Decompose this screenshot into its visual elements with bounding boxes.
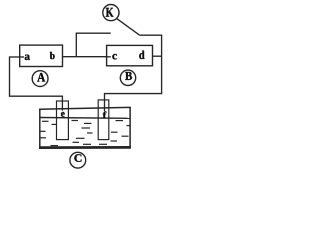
letter f [103,112,107,119]
letter A [37,73,45,82]
tank left wall [39,109,41,149]
tank right wall [129,107,131,149]
letter B [125,72,132,80]
stub into box c [107,56,111,58]
box cd [107,45,153,65]
letter d [139,51,144,59]
wire a to left [10,56,25,58]
electrode e [57,101,69,140]
label circle B [120,70,135,85]
wire d to right [146,55,162,57]
stub into box a [20,56,24,58]
letter K [106,8,114,17]
wire top right down [105,35,162,111]
wire left down and to electrode e [10,56,63,110]
wire branch up [76,33,110,57]
tank rim [39,107,131,109]
letter C [74,154,81,162]
box ab [20,45,63,66]
letter b [50,52,55,59]
liquid level [40,117,129,120]
wire b to c [57,56,111,58]
label circle C [70,152,86,168]
letter e [61,112,65,117]
switch circle K [103,5,119,21]
letter c [112,54,116,59]
liquid dashes [40,121,131,146]
letter a [25,55,30,60]
electrode f [98,100,109,140]
switch blade [117,19,140,36]
label circle A [32,71,48,87]
tank bottom [39,146,131,149]
